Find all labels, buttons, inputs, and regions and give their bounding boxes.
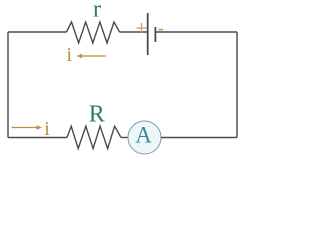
current arrow bottom (pointing right): [12, 125, 42, 129]
wire bottom-left segment: [8, 137, 67, 139]
wire left side: [7, 32, 9, 138]
svg-text:r: r: [93, 0, 101, 23]
wire resistor-to-battery: [120, 31, 148, 33]
battery short plate (-): [154, 27, 156, 42]
wire resistor-to-ammeter: [121, 137, 128, 139]
wire battery-to-right-corner: [155, 31, 237, 33]
ammeter A circle: [128, 121, 161, 154]
plus sign: [137, 23, 147, 33]
battery long plate (+): [147, 13, 149, 55]
wire right side: [236, 32, 238, 138]
svg-text:R: R: [89, 102, 105, 128]
svg-text:i: i: [67, 44, 73, 66]
svg-text:A: A: [135, 123, 152, 148]
resistor R: [67, 126, 121, 148]
wire ammeter-to-right: [161, 137, 237, 139]
svg-text:i: i: [44, 118, 50, 140]
current arrow top (pointing left): [77, 54, 107, 58]
resistor r: [67, 22, 120, 43]
minus sign: [159, 29, 164, 31]
wire top-left segment: [8, 31, 67, 33]
